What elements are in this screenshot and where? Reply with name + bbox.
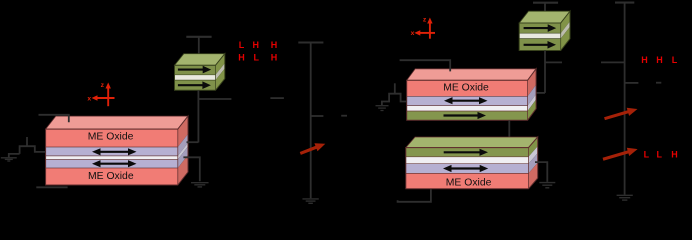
magnetization arrow (free layer U1)	[178, 84, 204, 86]
magnetization double arrow (free FM, D2)	[452, 100, 481, 102]
wire MTJ U2 bottom	[544, 51, 546, 93]
ground (right column)	[617, 194, 633, 196]
svg-text:H: H	[271, 52, 278, 62]
svg-text:ME Oxide: ME Oxide	[88, 131, 134, 142]
magnetization arrow (free layer U2)	[524, 44, 549, 46]
red magnetization state arrow (left column)	[300, 147, 317, 153]
supply terminal T-bar above MTJ U1	[186, 36, 211, 38]
ME device D2 (right upper): ME Oxide / FM / spacer / fixed FM	[407, 69, 536, 81]
ME device D1 (left): ME Oxide / FM / spacer / FM / ME Oxide	[46, 116, 188, 129]
magnetization double arrow (upper FM, D1)	[100, 151, 130, 153]
wire segment right of node	[656, 82, 661, 84]
connector wire D2 fixed FM to D3 fixed FM	[508, 120, 510, 141]
wire MTJ U1 bottom to node	[197, 90, 199, 142]
svg-text:x: x	[411, 30, 415, 37]
node: output tap wire	[198, 98, 231, 100]
MTJ stack U1 (left circuit)	[175, 54, 225, 66]
output wire from node to column	[545, 61, 562, 63]
red state arrow 2 (right column)	[603, 152, 629, 160]
supply terminal T-bar (right divider column)	[615, 2, 634, 4]
wire	[544, 3, 546, 14]
wire right of D3 to ground	[535, 162, 547, 182]
ground (right input)	[376, 105, 389, 107]
svg-text:H: H	[252, 40, 259, 50]
svg-text:L: L	[254, 52, 260, 62]
magnetization arrow (fixed FM, D3)	[444, 151, 481, 153]
svg-text:L: L	[656, 150, 662, 160]
output tap at right divider node	[624, 82, 638, 84]
axes marker right (x-z)	[429, 23, 431, 39]
svg-text:H: H	[656, 55, 663, 65]
MTJ stack U2 (right circuit)	[519, 11, 570, 23]
svg-text:H: H	[271, 40, 278, 50]
red state arrow 1 (right column)	[605, 112, 629, 119]
ground (D1 right)	[191, 182, 209, 184]
output tap at divider node	[311, 115, 324, 117]
input wire left of D1	[26, 137, 28, 146]
magnetization double arrow (free FM, D3)	[451, 167, 481, 169]
supply terminal T-bar above MTJ U2	[533, 2, 558, 4]
wire divider column right	[624, 3, 626, 195]
svg-text:ME Oxide: ME Oxide	[443, 83, 489, 94]
magnetization arrow (fixed layer U2)	[524, 27, 549, 29]
svg-text:ME Oxide: ME Oxide	[88, 171, 134, 182]
svg-text:L: L	[239, 40, 245, 50]
ground (left column)	[302, 198, 318, 200]
wire upper FM tap to MTJ node	[187, 141, 199, 143]
svg-text:z: z	[423, 17, 427, 24]
bottom electrode wire D3	[398, 189, 431, 202]
wire divider column	[310, 43, 312, 199]
supply terminal T-bar (left divider column)	[298, 41, 323, 43]
svg-text:L: L	[672, 55, 678, 65]
svg-text:H: H	[641, 55, 648, 65]
wire lower FM tap to ground	[183, 157, 199, 181]
magnetization arrow (fixed layer U1)	[178, 69, 204, 71]
ground (left input)	[1, 157, 17, 159]
magnetization arrow (fixed FM, D2)	[444, 114, 479, 116]
input wire left of D2	[394, 83, 396, 93]
ME device D3 (right lower): fixed FM / spacer / FM / ME Oxide	[406, 137, 538, 148]
wire segment (interconnect)	[270, 97, 284, 99]
svg-text:x: x	[87, 96, 91, 103]
wire into D2 upper tap	[533, 92, 545, 94]
ground (D3 right)	[539, 182, 555, 184]
wire top electrode D1	[39, 115, 69, 123]
axes marker left (x-z)	[107, 88, 109, 107]
wire top electrode D2	[400, 60, 451, 71]
svg-text:H: H	[671, 150, 678, 160]
svg-text:L: L	[644, 150, 650, 160]
bottom electrode stub D1	[36, 186, 67, 188]
magnetization double arrow (lower FM, D1)	[100, 163, 130, 165]
wire segment right of node	[341, 115, 347, 117]
wire	[198, 37, 200, 56]
svg-text:z: z	[101, 82, 105, 89]
svg-text:ME Oxide: ME Oxide	[446, 177, 492, 188]
svg-text:H: H	[238, 52, 245, 62]
